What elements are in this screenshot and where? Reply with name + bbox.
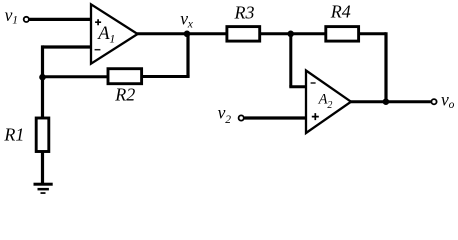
- wire A1 inverting input to left: [43, 45, 92, 48]
- node junction A (inverting node): [39, 74, 46, 81]
- op-amp A1: [91, 4, 138, 63]
- wire vx down: [186, 34, 189, 77]
- svg-text:R3: R3: [234, 2, 255, 22]
- svg-text:o: o: [449, 99, 455, 111]
- resistor R3: [227, 27, 260, 41]
- wire R1 to ground: [41, 152, 44, 185]
- svg-text:x: x: [187, 18, 194, 30]
- node vx: [184, 31, 191, 38]
- svg-text:A: A: [96, 24, 110, 44]
- svg-text:R1: R1: [3, 124, 24, 144]
- wire A2 output to vo: [351, 100, 431, 103]
- svg-text:1: 1: [109, 32, 115, 46]
- svg-text:1: 1: [12, 15, 18, 27]
- resistor R1: [36, 118, 49, 152]
- svg-text:2: 2: [327, 100, 332, 111]
- resistor R4: [326, 27, 359, 41]
- wire v2 to A2 noninverting input: [244, 116, 306, 119]
- wire R2 left side: [41, 75, 108, 78]
- svg-text:R2: R2: [114, 85, 135, 105]
- terminal vo: [431, 99, 436, 104]
- A2 minus sign: [311, 82, 316, 84]
- svg-text:2: 2: [225, 114, 231, 126]
- wire to A2 inverting input: [289, 85, 306, 88]
- wire junction B down to A2 inverting input: [289, 34, 292, 87]
- wire v1 to A1 noninverting input: [30, 18, 92, 21]
- wire vertical left feedback down to R1: [41, 45, 44, 118]
- wire vertical down to output: [384, 32, 387, 102]
- terminal v2: [239, 115, 244, 120]
- wire A1 output to R3: [137, 32, 227, 35]
- ground: [34, 183, 53, 194]
- wire R2 right side: [142, 75, 190, 78]
- node junction B (A2 inverting feed): [287, 31, 294, 38]
- resistor R2: [108, 69, 142, 84]
- terminal v1: [24, 17, 29, 22]
- A2 plus sign: [312, 113, 319, 120]
- A1 minus sign: [95, 49, 101, 51]
- wire R3 to R4: [260, 32, 326, 35]
- op-amp A2: [306, 71, 351, 134]
- node junction C (output node): [383, 98, 390, 105]
- wire R4 right to corner: [359, 32, 386, 35]
- svg-text:R4: R4: [330, 2, 351, 22]
- svg-text:A: A: [318, 92, 328, 108]
- A1 plus sign: [95, 19, 101, 25]
